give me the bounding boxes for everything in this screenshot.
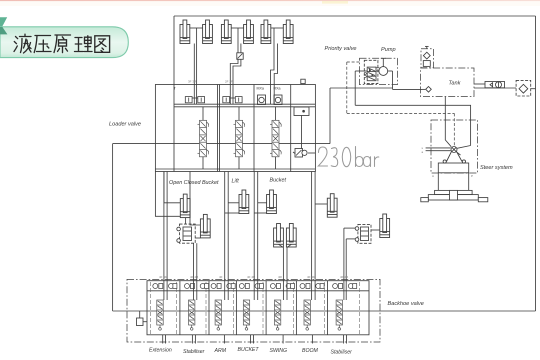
svg-text:Loader valve: Loader valve <box>109 122 141 128</box>
BOOM riser + cylinder G <box>311 172 313 284</box>
stabiliser cylinder B <box>200 214 210 238</box>
header box <box>0 27 128 58</box>
check valve assembly <box>485 82 505 88</box>
watermark <box>318 147 379 167</box>
loader spool 2 <box>234 120 245 157</box>
swing cylinder right <box>286 224 296 248</box>
pilot valve (stabiliser) <box>358 224 371 243</box>
pair down to backhoe cell1 <box>163 172 165 284</box>
small square on block top <box>301 79 305 83</box>
inline valve on pair 2 line <box>237 53 243 60</box>
return filter above tank <box>421 49 433 68</box>
svg-text:4F 4R: 4F 4R <box>190 275 199 279</box>
cylinder pair 3 left <box>261 20 271 44</box>
svg-text:Lift: Lift <box>232 179 240 185</box>
bucket cylinder <box>267 190 277 214</box>
svg-text:Stabiliser: Stabiliser <box>183 349 205 355</box>
rails <box>174 103 315 105</box>
b <box>356 147 364 167</box>
suction strainer diamond <box>426 87 432 93</box>
end cap internals <box>294 107 309 116</box>
cylinder pair 2 right <box>244 20 254 44</box>
svg-text:2F 2R: 2F 2R <box>225 80 234 84</box>
svg-text:Steer system: Steer system <box>480 165 513 171</box>
svg-text:P: P <box>471 174 473 178</box>
pilot dashed lines <box>347 62 455 147</box>
svg-text:Open Closed Bucket: Open Closed Bucket <box>169 180 219 186</box>
svg-text:Priority valve: Priority valve <box>325 46 357 52</box>
relief valve <box>295 149 303 158</box>
cylinder pair 2 left <box>221 20 231 44</box>
top pink hairline <box>0 0 540 1</box>
outlet filter dashed box <box>516 80 531 96</box>
cylinder pair 1 right <box>203 20 213 44</box>
bottom stubs <box>162 335 164 344</box>
压 <box>34 36 51 53</box>
svg-text:4F: 4F <box>219 275 223 279</box>
priority valve body <box>367 67 376 81</box>
2 <box>318 147 327 166</box>
tank box <box>421 68 475 97</box>
lift cylinder <box>239 190 249 214</box>
svg-text:4F 4R: 4F 4R <box>307 275 316 279</box>
open/closed bucket cylinder <box>180 194 190 218</box>
svg-text:BUCKET: BUCKET <box>238 347 260 353</box>
svg-text:ARM: ARM <box>214 348 227 354</box>
main feed wire loop <box>113 143 330 145</box>
swing cylinder left <box>274 224 284 248</box>
tank outlets right <box>474 83 485 85</box>
svg-text:BOOM: BOOM <box>302 348 319 354</box>
svg-text:Backhoe valve: Backhoe valve <box>388 301 424 307</box>
原 <box>54 35 71 53</box>
svg-text:Tank: Tank <box>449 81 462 87</box>
svg-text:4F 4R: 4F 4R <box>340 275 349 279</box>
svg-text:Bucket: Bucket <box>270 178 287 184</box>
boom cylinder <box>327 194 337 218</box>
svg-text:Stabiliser: Stabiliser <box>331 350 353 356</box>
loader spool 1 <box>198 120 209 157</box>
0 <box>342 147 350 166</box>
图 <box>95 36 110 53</box>
3 <box>331 148 338 167</box>
steering valve body <box>438 163 468 173</box>
left edge <box>173 16 175 85</box>
svg-text:Extension: Extension <box>149 348 172 354</box>
svg-text:Pump: Pump <box>381 47 396 53</box>
svg-text:3F 3R: 3F 3R <box>188 80 197 84</box>
load sense square <box>139 311 141 318</box>
steering cylinder assembly <box>435 190 473 194</box>
svg-text:4F 4R: 4F 4R <box>159 275 168 279</box>
svg-text:MXa: MXa <box>257 87 264 91</box>
stabiliser cylinder right <box>380 214 390 238</box>
steering orbital unit <box>451 147 457 153</box>
wire pair tails inside block to spool tops <box>163 284 165 301</box>
cell 3 circles <box>259 97 264 102</box>
cylinder pair 3 right <box>283 20 293 44</box>
pilot squares cells 1,2 <box>185 97 192 103</box>
svg-text:RXa: RXa <box>274 87 281 91</box>
a <box>363 157 370 167</box>
ports + spools per cell <box>153 284 177 289</box>
pair to backhoe cell2 <box>193 243 195 283</box>
pump circle <box>379 67 388 76</box>
cylinder pair 1 left <box>180 20 190 44</box>
top edge <box>174 15 536 17</box>
r <box>375 157 379 167</box>
header text 液压原理图 (hand strokes) <box>14 34 110 53</box>
ribbon fold <box>0 17 7 27</box>
svg-text:4F 4R: 4F 4R <box>247 275 256 279</box>
液 <box>14 37 18 52</box>
left group: Open/Closed bucket cylinder <box>155 172 180 217</box>
pilot valve (open/closed bucket) <box>180 224 196 243</box>
load sense shuttle <box>137 318 144 326</box>
bottom edge / main feed line <box>113 310 536 312</box>
svg-text:A: A <box>432 174 434 178</box>
tiny port marks above blocks <box>159 80 473 280</box>
loader spool 3 <box>270 120 281 157</box>
steer system box <box>431 120 478 173</box>
svg-text:SWING: SWING <box>270 348 288 354</box>
理 <box>75 38 84 52</box>
right edge <box>535 16 537 311</box>
